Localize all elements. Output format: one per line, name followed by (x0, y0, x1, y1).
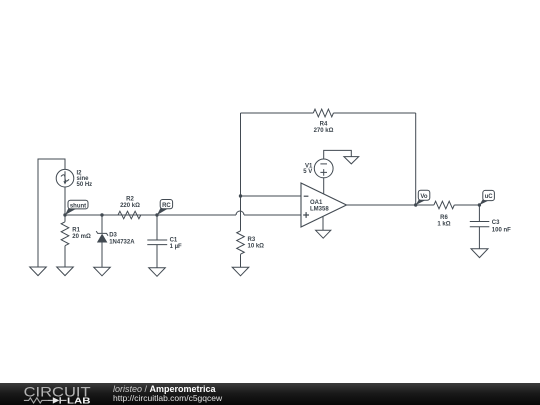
resistor R6 (434, 201, 454, 209)
wire shunt node down to R1 (64, 215, 66, 222)
wire right feedback rail down to output (415, 113, 417, 205)
node shunt flag (65, 200, 88, 215)
svg-text:uC: uC (485, 194, 494, 200)
node Vo flag (416, 190, 430, 205)
capacitor C3 (470, 222, 490, 227)
wire R1 bottom to ground (64, 246, 66, 267)
svg-text:R3: R3 (248, 237, 256, 243)
wire V1 top to its ground (324, 150, 352, 159)
label R4 value (314, 121, 334, 133)
ground (V1) (344, 157, 359, 164)
label R2 value (120, 196, 140, 208)
node uC flag (479, 190, 494, 205)
wire top feedback rail right of R4 (333, 112, 415, 114)
wire hop to op-amp + input (244, 214, 301, 216)
label OA1 value (310, 200, 329, 212)
wire V1 bottom to op-amp top (323, 178, 325, 194)
svg-text:C3: C3 (492, 220, 500, 226)
ground (C3) (471, 249, 488, 258)
node RC flag (157, 200, 173, 216)
wire R3 bottom to ground (240, 254, 242, 267)
ground (R1) (57, 267, 74, 276)
ground (op-amp) (316, 230, 331, 238)
ground (R3) (232, 267, 249, 276)
svg-text:shunt: shunt (70, 203, 86, 209)
wire I2 bottom to shunt node (64, 187, 66, 215)
svg-text:10 kΩ: 10 kΩ (248, 244, 265, 250)
zener diode D3 (96, 231, 108, 242)
svg-text:D3: D3 (109, 233, 117, 239)
resistor R2 (118, 211, 141, 219)
node inverting junction dot (239, 194, 242, 197)
wire R6 to uC node (454, 204, 479, 206)
wire top feedback rail left of R4 (241, 112, 314, 114)
wire op-amp output to R6 (347, 204, 434, 206)
label R3 value (248, 237, 265, 249)
svg-text:RC: RC (162, 203, 171, 209)
svg-text:R6: R6 (440, 215, 448, 221)
label I2 value (77, 170, 93, 188)
label V1 value (303, 163, 313, 175)
label R1 value (72, 228, 91, 240)
svg-text:OA1: OA1 (310, 200, 323, 206)
node RC junction dot (155, 213, 158, 216)
svg-text:100 nF: 100 nF (492, 227, 511, 233)
svg-text:LM358: LM358 (310, 207, 329, 213)
node Vo junction dot (414, 203, 417, 206)
svg-text:1N4732A: 1N4732A (109, 239, 135, 245)
node D3 junction dot (100, 213, 103, 216)
svg-text:R4: R4 (320, 121, 328, 127)
svg-text:R2: R2 (126, 196, 134, 202)
label R6 value (437, 215, 450, 228)
capacitor C1 (147, 240, 167, 245)
label D3 value (109, 233, 135, 246)
svg-text:50 Hz: 50 Hz (77, 182, 93, 188)
wire op-amp bottom to ground (322, 217, 324, 231)
svg-text:LAB: LAB (67, 396, 91, 405)
svg-text:20 mΩ: 20 mΩ (72, 234, 91, 240)
wire D3 bottom to ground (101, 242, 103, 267)
wire RC node down to C1 (156, 215, 158, 240)
ground (left rail) (30, 267, 47, 276)
ground (C1) (149, 268, 166, 277)
resistor R3 (237, 231, 245, 254)
label C1 value (170, 238, 182, 250)
credit text (113, 385, 222, 403)
wire left rail from ground up and over to I2 top (38, 159, 65, 267)
wire hop over feedback vertical (236, 211, 244, 215)
node uC junction dot (478, 203, 481, 206)
wire inverting node to op-amp - input (241, 195, 302, 197)
footer bar (0, 383, 540, 405)
resistor R4 (313, 109, 333, 117)
svg-text:1 kΩ: 1 kΩ (437, 221, 450, 227)
CircuitLab logo (0, 383, 100, 405)
resistor R1 (61, 222, 69, 246)
svg-text:220 kΩ: 220 kΩ (120, 203, 140, 209)
wire C3 bottom to ground (478, 227, 480, 249)
node shunt junction dot (63, 213, 66, 216)
wire feedback vertical from top rail to R3 (240, 113, 242, 231)
svg-text:Vo: Vo (420, 194, 428, 200)
svg-text:R1: R1 (72, 228, 80, 234)
label C3 value (492, 220, 511, 233)
voltage source V1 (314, 159, 333, 178)
svg-text:270 kΩ: 270 kΩ (314, 128, 334, 134)
svg-text:5 V: 5 V (303, 169, 312, 175)
wire C1 bottom to ground (156, 245, 158, 268)
svg-text:1 µF: 1 µF (170, 244, 182, 250)
wire D3 node down to zener bar (101, 215, 103, 233)
current source I2 (56, 169, 74, 187)
wire uC node down to C3 (478, 205, 480, 222)
op-amp OA1 (301, 183, 347, 227)
svg-text:C1: C1 (170, 238, 178, 244)
ground (D3) (94, 267, 111, 276)
wire main rail shunt node to hop (65, 214, 236, 216)
